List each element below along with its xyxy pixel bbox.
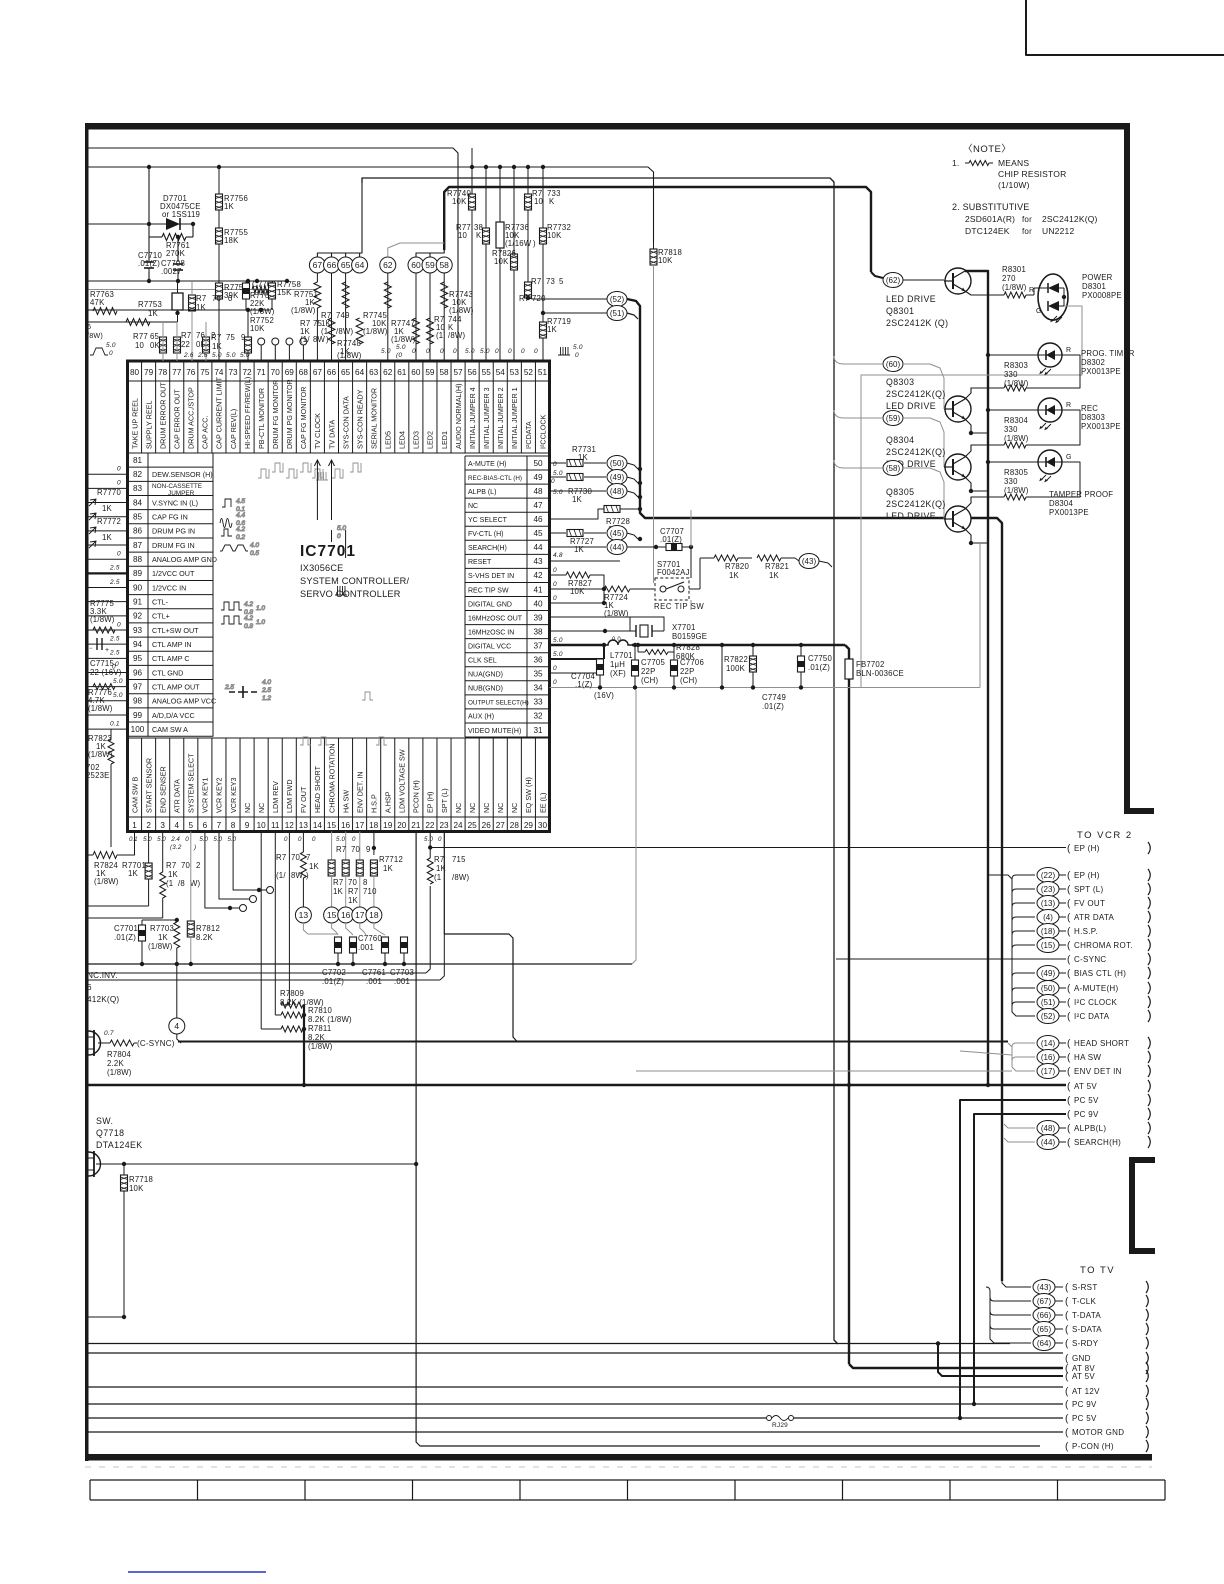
connector TV T-DATA xyxy=(1033,1308,1055,1323)
svg-text:(15): (15) xyxy=(1041,941,1056,950)
svg-text:63: 63 xyxy=(369,368,379,377)
svg-text:LDM VOLTAGE SW: LDM VOLTAGE SW xyxy=(398,749,407,813)
svg-text:4.8: 4.8 xyxy=(553,552,563,559)
svg-text:(: ( xyxy=(1065,1297,1069,1308)
svg-text:IX3056CE: IX3056CE xyxy=(300,563,343,573)
svg-text:82: 82 xyxy=(133,470,143,479)
svg-text:(1/8W): (1/8W) xyxy=(308,1042,333,1051)
svg-text:VCR KEY3: VCR KEY3 xyxy=(229,777,238,813)
svg-text:PROG. TIMER: PROG. TIMER xyxy=(1081,349,1135,358)
svg-text:B0159GE: B0159GE xyxy=(672,632,707,641)
svg-text:5.0: 5.0 xyxy=(337,525,346,532)
svg-text:INITIAL JUMPER 4: INITIAL JUMPER 4 xyxy=(468,387,477,449)
svg-text:(: ( xyxy=(1065,1400,1069,1411)
svg-text:S-DATA: S-DATA xyxy=(1072,1325,1102,1334)
svg-text:(59): (59) xyxy=(886,414,901,423)
wire S7701 to R7820 xyxy=(689,588,700,590)
svg-text:10: 10 xyxy=(458,231,468,240)
junction dots x641 xyxy=(638,467,642,471)
svg-text:A-MUTE(H): A-MUTE(H) xyxy=(1074,984,1119,993)
svg-text:EE (L): EE (L) xyxy=(538,793,547,813)
svg-text:(1: (1 xyxy=(434,873,441,882)
svg-text:(1/10W): (1/10W) xyxy=(998,180,1030,190)
svg-text:R7: R7 xyxy=(166,861,176,870)
svg-text:(1/: (1/ xyxy=(276,871,286,880)
svg-text:5.0: 5.0 xyxy=(113,692,123,699)
svg-text:ENV DET. IN: ENV DET. IN xyxy=(355,771,364,813)
svg-text:R: R xyxy=(1029,287,1034,294)
svg-text:0: 0 xyxy=(534,348,538,355)
svg-text:(13): (13) xyxy=(1041,899,1056,908)
svg-text:R8301: R8301 xyxy=(1002,265,1026,274)
svg-text:10K: 10K xyxy=(452,197,467,206)
svg-text:(: ( xyxy=(1067,969,1071,980)
svg-text:15: 15 xyxy=(327,821,337,830)
ferrite bead FB7702 xyxy=(845,659,853,679)
svg-text:(44): (44) xyxy=(610,543,625,552)
svg-text:(: ( xyxy=(1067,1039,1071,1050)
svg-text:(1/16W: (1/16W xyxy=(505,239,532,248)
wire y973 xyxy=(89,972,427,974)
svg-text:(: ( xyxy=(1065,1442,1069,1453)
right bracket frame xyxy=(1129,1157,1135,1254)
bubble 62 right xyxy=(883,273,903,288)
resistor R7744 xyxy=(427,318,434,344)
resistor R7818 xyxy=(653,242,655,249)
svg-text:EQ SW (H): EQ SW (H) xyxy=(524,777,533,813)
svg-text:EP (H): EP (H) xyxy=(1074,844,1100,853)
wire bus C y187 thick xyxy=(444,187,871,272)
svg-text:.01(Z): .01(Z) xyxy=(808,663,830,672)
svg-text:POWER: POWER xyxy=(1082,273,1113,282)
blue link underline xyxy=(128,1571,266,1573)
svg-text:26: 26 xyxy=(482,821,492,830)
svg-text:1K: 1K xyxy=(547,325,558,334)
svg-text:(: ( xyxy=(1067,1096,1071,1107)
connector VCR2 ALPB(L) xyxy=(1037,1121,1059,1136)
svg-text:0: 0 xyxy=(228,294,233,303)
perforation dashes xyxy=(85,1466,1152,1468)
svg-text:(XF): (XF) xyxy=(610,669,626,678)
svg-text:66: 66 xyxy=(327,260,337,270)
svg-text:72: 72 xyxy=(243,368,253,377)
svg-text:2.5: 2.5 xyxy=(109,565,120,572)
svg-text:75: 75 xyxy=(226,333,236,342)
svg-text:22: 22 xyxy=(181,340,190,349)
IC left pin band xyxy=(128,453,217,737)
svg-text:60: 60 xyxy=(411,260,421,270)
svg-text:1K: 1K xyxy=(729,571,740,580)
svg-text:G: G xyxy=(1036,308,1042,315)
svg-text:AT 12V: AT 12V xyxy=(1072,1387,1100,1396)
svg-text:1K: 1K xyxy=(168,870,179,879)
svg-text:24: 24 xyxy=(454,821,464,830)
LED D8303 xyxy=(1038,398,1062,422)
connector TV S-DATA xyxy=(1033,1322,1055,1337)
crystal X7701 xyxy=(605,630,636,632)
pin ref bubble 60 xyxy=(408,257,424,273)
svg-text:60: 60 xyxy=(411,368,421,377)
connector VCR2 CHROMA ROT. xyxy=(1037,938,1059,953)
svg-text:(CH): (CH) xyxy=(680,676,697,685)
svg-text:(1/8W): (1/8W) xyxy=(88,750,113,759)
svg-text:ENV DET IN: ENV DET IN xyxy=(1074,1067,1122,1076)
svg-text:1K: 1K xyxy=(224,202,235,211)
wire gnd y964 xyxy=(89,963,633,965)
svg-text:.001: .001 xyxy=(394,977,410,986)
svg-text:1K: 1K xyxy=(102,504,113,513)
capacitor C7702 xyxy=(335,937,342,953)
svg-text:62: 62 xyxy=(383,368,393,377)
bubble 48 xyxy=(607,484,627,499)
svg-text:5.0: 5.0 xyxy=(553,489,563,496)
svg-text:SYSTEM CONTROLLER/: SYSTEM CONTROLLER/ xyxy=(300,576,410,586)
svg-text:H.S.P: H.S.P xyxy=(369,794,378,813)
VCR2 fan rail upper xyxy=(988,875,1035,1016)
svg-text:(: ( xyxy=(1065,1372,1069,1383)
svg-text:11: 11 xyxy=(271,821,280,830)
bubble 50 xyxy=(607,456,627,471)
svg-text:18K: 18K xyxy=(224,236,239,245)
svg-text:NC: NC xyxy=(243,803,252,813)
svg-text:R: R xyxy=(1066,402,1071,409)
svg-text:DRUM PG IN: DRUM PG IN xyxy=(152,527,195,536)
capacitor C7710 xyxy=(144,261,154,263)
svg-text:.01(Z): .01(Z) xyxy=(660,535,682,544)
svg-text:47K: 47K xyxy=(90,298,105,307)
wire y1343 long xyxy=(89,1343,1011,1345)
transistor Q8305 xyxy=(883,461,903,476)
svg-text:10K: 10K xyxy=(570,587,585,596)
svg-text:0.7: 0.7 xyxy=(104,1030,114,1037)
connector VCR2 I²C CLOCK xyxy=(1037,995,1059,1010)
svg-text:/8: /8 xyxy=(178,879,185,888)
connector VCR2 FV OUT xyxy=(1037,896,1059,911)
svg-text:37: 37 xyxy=(533,641,543,650)
svg-text:22: 22 xyxy=(425,821,435,830)
capacitor C7705 xyxy=(634,645,636,660)
resistor R7756 xyxy=(218,167,220,361)
svg-text:BLN-0036CE: BLN-0036CE xyxy=(856,669,904,678)
wire Q8301 emitter to R8301 xyxy=(965,291,1004,295)
svg-text:98: 98 xyxy=(133,697,143,706)
svg-text:(1/8W): (1/8W) xyxy=(250,307,275,316)
svg-text:0: 0 xyxy=(495,348,499,355)
svg-text:1K: 1K xyxy=(769,571,780,580)
svg-text:LED DRIVE: LED DRIVE xyxy=(886,294,936,304)
svg-text:49: 49 xyxy=(533,473,543,482)
svg-text:5.0: 5.0 xyxy=(553,637,563,644)
svg-text:5.0: 5.0 xyxy=(199,836,208,843)
svg-text:58: 58 xyxy=(439,368,449,377)
svg-text:4: 4 xyxy=(174,1021,179,1031)
svg-text:4.0: 4.0 xyxy=(250,542,259,549)
svg-text:8.2K: 8.2K xyxy=(196,933,213,942)
svg-text:SPT (L): SPT (L) xyxy=(1074,885,1104,894)
svg-text:(1: (1 xyxy=(436,331,443,340)
svg-text:(1/8W): (1/8W) xyxy=(148,942,173,951)
svg-text:8W: 8W xyxy=(291,871,304,880)
svg-text:A-MUTE (H): A-MUTE (H) xyxy=(468,461,507,468)
bubbles 15-18 xyxy=(324,907,340,923)
svg-text:0: 0 xyxy=(438,836,442,843)
svg-text:DRUM FG MONITOR: DRUM FG MONITOR xyxy=(271,380,280,449)
svg-text:DRUM FG IN: DRUM FG IN xyxy=(152,541,195,550)
svg-text:1K: 1K xyxy=(574,545,585,554)
svg-text:(: ( xyxy=(1067,927,1071,938)
svg-text:0.8: 0.8 xyxy=(244,623,253,630)
svg-text:(64): (64) xyxy=(1037,1339,1052,1348)
resistor R7724 xyxy=(600,588,604,590)
svg-text:62: 62 xyxy=(383,260,393,270)
connector VCR2 SEARCH(H) xyxy=(1037,1135,1059,1150)
svg-text:NC: NC xyxy=(510,803,519,813)
svg-text:89: 89 xyxy=(133,569,143,578)
svg-text:C7749: C7749 xyxy=(762,693,786,702)
svg-text:1K: 1K xyxy=(572,495,583,504)
transistor Q8304 xyxy=(883,411,903,426)
svg-text:749: 749 xyxy=(336,311,350,320)
svg-text:4.2: 4.2 xyxy=(244,601,253,608)
resistor R7750 xyxy=(328,318,335,344)
svg-text:ATR DATA: ATR DATA xyxy=(1074,913,1115,922)
svg-text:REC-BIAS-CTL (H): REC-BIAS-CTL (H) xyxy=(468,475,522,482)
svg-text:IC7701: IC7701 xyxy=(300,543,356,560)
svg-text:(: ( xyxy=(1065,1325,1069,1336)
svg-text:5.0: 5.0 xyxy=(226,352,236,359)
svg-text:R7: R7 xyxy=(276,853,286,862)
svg-text:C7705: C7705 xyxy=(641,658,665,667)
svg-text:PX0013PE: PX0013PE xyxy=(1049,508,1089,517)
svg-text:59: 59 xyxy=(425,368,435,377)
svg-text:(: ( xyxy=(1067,871,1071,882)
svg-text:FV OUT: FV OUT xyxy=(1074,899,1105,908)
svg-text:1K: 1K xyxy=(333,887,344,896)
svg-text:(: ( xyxy=(1067,941,1071,952)
wire SPT x444 xyxy=(443,832,445,935)
svg-text:LDM REV: LDM REV xyxy=(271,781,280,813)
svg-text:5.0: 5.0 xyxy=(424,836,434,843)
svg-text:2: 2 xyxy=(146,821,151,830)
svg-text:NC: NC xyxy=(496,803,505,813)
svg-text:40: 40 xyxy=(533,599,543,608)
svg-text:(60): (60) xyxy=(886,360,901,369)
svg-text:TV DATA: TV DATA xyxy=(327,420,336,449)
svg-text:AUX (H): AUX (H) xyxy=(468,714,494,721)
svg-text:RJ29: RJ29 xyxy=(772,1422,788,1429)
svg-text:CHROMA ROT.: CHROMA ROT. xyxy=(1074,941,1133,950)
svg-text:(: ( xyxy=(1067,885,1071,896)
svg-text:5.0: 5.0 xyxy=(240,352,250,359)
svg-text:C7701: C7701 xyxy=(114,924,138,933)
svg-text:DTC124EK: DTC124EK xyxy=(965,226,1010,236)
svg-text:70: 70 xyxy=(291,853,301,862)
svg-text:22P: 22P xyxy=(641,667,655,676)
svg-text:5.0: 5.0 xyxy=(480,348,490,355)
svg-text:16: 16 xyxy=(341,910,351,920)
svg-text:ALPB(L): ALPB(L) xyxy=(1074,1124,1106,1133)
svg-text:PC 9V: PC 9V xyxy=(1074,1110,1099,1119)
svg-text:(: ( xyxy=(1065,1387,1069,1398)
svg-text:14: 14 xyxy=(313,821,323,830)
svg-text:69: 69 xyxy=(285,368,295,377)
svg-text:NC: NC xyxy=(468,503,478,510)
svg-text:OUTPUT SELECT(H): OUTPUT SELECT(H) xyxy=(468,700,529,707)
connector VCR2 HEAD SHORT xyxy=(1037,1036,1059,1051)
svg-text:LED1: LED1 xyxy=(440,431,449,449)
svg-text:1.2: 1.2 xyxy=(262,695,271,702)
svg-text:SYSTEM SELECT: SYSTEM SELECT xyxy=(187,753,196,813)
wire AT 8V xyxy=(849,1364,1063,1368)
wire C-SYNC row xyxy=(836,958,1066,960)
svg-text:(1/8W): (1/8W) xyxy=(88,704,113,713)
svg-text:67: 67 xyxy=(313,368,323,377)
connector VCR2 A-MUTE(H) xyxy=(1037,981,1059,996)
svg-text:65: 65 xyxy=(341,260,351,270)
svg-text:87: 87 xyxy=(133,541,143,550)
resistor R7702 xyxy=(162,832,164,873)
svg-text:31: 31 xyxy=(533,726,543,735)
svg-text:5.0: 5.0 xyxy=(396,344,406,351)
svg-text:38: 38 xyxy=(533,627,543,636)
svg-text:(: ( xyxy=(1067,1053,1071,1064)
svg-text:R7821: R7821 xyxy=(765,562,789,571)
resistor R7759 xyxy=(203,337,210,353)
svg-text:+: + xyxy=(105,647,109,654)
svg-text:0: 0 xyxy=(352,836,356,843)
svg-text:(: ( xyxy=(1067,899,1071,910)
svg-text:CAM SW B: CAM SW B xyxy=(130,776,139,813)
svg-text:R7: R7 xyxy=(181,331,191,340)
resistor R7776 xyxy=(93,684,115,690)
svg-text:DIGITAL VCC: DIGITAL VCC xyxy=(468,643,511,650)
svg-text:1K: 1K xyxy=(348,896,359,905)
svg-text:AT 5V: AT 5V xyxy=(1072,1372,1095,1381)
svg-text:(: ( xyxy=(1067,1124,1071,1135)
svg-text:52: 52 xyxy=(524,368,534,377)
svg-text:(52): (52) xyxy=(1041,1012,1056,1021)
bubble 4 xyxy=(169,1018,185,1034)
svg-text:0.1: 0.1 xyxy=(129,836,138,843)
svg-text:(1/8W): (1/8W) xyxy=(1002,283,1027,292)
capacitor C7715 xyxy=(97,638,102,650)
resistor R7743 xyxy=(443,273,445,361)
svg-text:76: 76 xyxy=(186,368,196,377)
svg-text:ALPB (L): ALPB (L) xyxy=(468,489,496,496)
left stub wires rows 82-100 xyxy=(89,473,128,475)
capacitor C7709 xyxy=(243,283,250,299)
svg-text:HEAD SHORT: HEAD SHORT xyxy=(1074,1039,1129,1048)
svg-text:L7701: L7701 xyxy=(610,651,633,660)
svg-text:3: 3 xyxy=(160,821,165,830)
svg-text:Q7718: Q7718 xyxy=(96,1128,124,1138)
svg-text:76: 76 xyxy=(212,294,221,303)
svg-text:(18): (18) xyxy=(1041,927,1056,936)
svg-text:R7809: R7809 xyxy=(280,989,304,998)
resistor R7823 xyxy=(110,729,112,739)
svg-text:0: 0 xyxy=(553,679,557,686)
svg-text:R7770: R7770 xyxy=(97,488,121,497)
svg-text:1K: 1K xyxy=(128,869,139,878)
svg-text:R7: R7 xyxy=(348,887,358,896)
svg-text:NON-CASSETTE: NON-CASSETTE xyxy=(152,483,202,490)
svg-text:70: 70 xyxy=(271,368,281,377)
svg-text:CAP ACC.: CAP ACC. xyxy=(201,416,210,449)
svg-text:CAP ERROR OUT: CAP ERROR OUT xyxy=(173,389,182,449)
svg-text:0: 0 xyxy=(575,352,579,359)
svg-text:5.0: 5.0 xyxy=(157,836,166,843)
svg-text:19: 19 xyxy=(383,821,393,830)
svg-text:R7811: R7811 xyxy=(308,1024,331,1033)
svg-text:84: 84 xyxy=(133,498,143,507)
wire x513 head short xyxy=(444,934,517,1042)
svg-text:68: 68 xyxy=(299,368,309,377)
svg-text:SEARCH(H): SEARCH(H) xyxy=(468,545,507,552)
waveform below R7719 xyxy=(558,347,570,355)
svg-text:GND: GND xyxy=(1072,1354,1091,1363)
svg-text:TO VCR 2: TO VCR 2 xyxy=(1077,830,1133,841)
svg-text:CAP FG MONITOR: CAP FG MONITOR xyxy=(299,387,308,449)
svg-text:I²C CLOCK: I²C CLOCK xyxy=(1074,998,1118,1007)
svg-text:S-RDY: S-RDY xyxy=(1072,1339,1099,1348)
resistor R7755 xyxy=(216,228,223,244)
svg-text:(17): (17) xyxy=(1041,1067,1056,1076)
bubble 49 xyxy=(607,470,627,485)
resistor R7760 xyxy=(189,295,196,311)
resistor R7753 xyxy=(172,293,183,310)
svg-text:8: 8 xyxy=(231,821,236,830)
svg-text:CTL+: CTL+ xyxy=(152,612,170,621)
svg-text:0: 0 xyxy=(553,567,557,574)
svg-text:F0042AJ: F0042AJ xyxy=(657,568,690,577)
svg-text:K: K xyxy=(476,231,482,240)
svg-text:34: 34 xyxy=(533,684,543,693)
svg-text:16MHzOSC IN: 16MHzOSC IN xyxy=(468,629,514,636)
svg-text:FB7702: FB7702 xyxy=(856,660,885,669)
wire y289 gray xyxy=(89,289,318,291)
resistor R7812 xyxy=(190,832,192,922)
svg-text:5.0: 5.0 xyxy=(143,836,152,843)
inductor L7701 xyxy=(604,640,632,645)
wire bubble62 to Q8301 base xyxy=(903,279,944,281)
svg-text:29: 29 xyxy=(524,821,534,830)
capacitor C7706 xyxy=(673,645,675,660)
resistor R7824 xyxy=(93,852,117,859)
revision table xyxy=(90,1479,1165,1481)
svg-text:AT 5V: AT 5V xyxy=(1074,1082,1097,1091)
svg-text:6: 6 xyxy=(203,821,208,830)
IC top pin band xyxy=(128,361,550,453)
svg-text:PC 5V: PC 5V xyxy=(1072,1414,1097,1423)
svg-text:15: 15 xyxy=(327,910,337,920)
svg-text:270: 270 xyxy=(1002,274,1016,283)
svg-text:(51): (51) xyxy=(610,309,625,318)
svg-text:R7828: R7828 xyxy=(676,643,700,652)
svg-text:MEANS: MEANS xyxy=(998,158,1029,168)
svg-text:(14): (14) xyxy=(1041,1039,1056,1048)
svg-text:5.0: 5.0 xyxy=(227,836,236,843)
wire AT 5V TV xyxy=(938,1345,1063,1376)
svg-text:X7701: X7701 xyxy=(672,623,696,632)
svg-text:(: ( xyxy=(1067,984,1071,995)
svg-text:R7: R7 xyxy=(211,333,221,342)
connector TV T-CLK xyxy=(1033,1294,1055,1309)
svg-text:I²CCLOCK: I²CCLOCK xyxy=(538,414,547,449)
svg-text:12: 12 xyxy=(285,821,295,830)
svg-text:73: 73 xyxy=(228,368,238,377)
svg-text:(22): (22) xyxy=(1041,871,1056,880)
svg-text:81: 81 xyxy=(133,456,143,465)
